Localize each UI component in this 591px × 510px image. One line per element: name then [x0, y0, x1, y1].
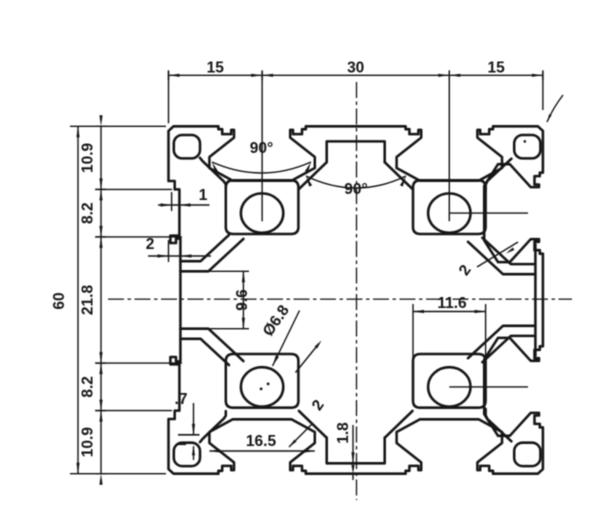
svg-text:21.8: 21.8 [80, 285, 97, 316]
svg-text:9.6: 9.6 [234, 289, 251, 311]
svg-text:8.2: 8.2 [80, 202, 97, 224]
svg-text:90°: 90° [250, 140, 273, 157]
svg-text:10.9: 10.9 [80, 427, 97, 458]
svg-text:1.8: 1.8 [335, 422, 352, 444]
svg-text:2: 2 [146, 236, 155, 253]
svg-text:8.2: 8.2 [80, 376, 97, 398]
svg-text:60: 60 [51, 292, 68, 309]
svg-text:10.9: 10.9 [80, 142, 97, 173]
svg-text:.7: .7 [175, 391, 188, 408]
svg-text:30: 30 [347, 60, 364, 77]
svg-text:1: 1 [199, 187, 208, 204]
svg-text:15: 15 [487, 60, 505, 77]
svg-text:15: 15 [207, 60, 225, 77]
svg-text:11.6: 11.6 [437, 295, 467, 312]
svg-text:16.5: 16.5 [246, 433, 277, 450]
